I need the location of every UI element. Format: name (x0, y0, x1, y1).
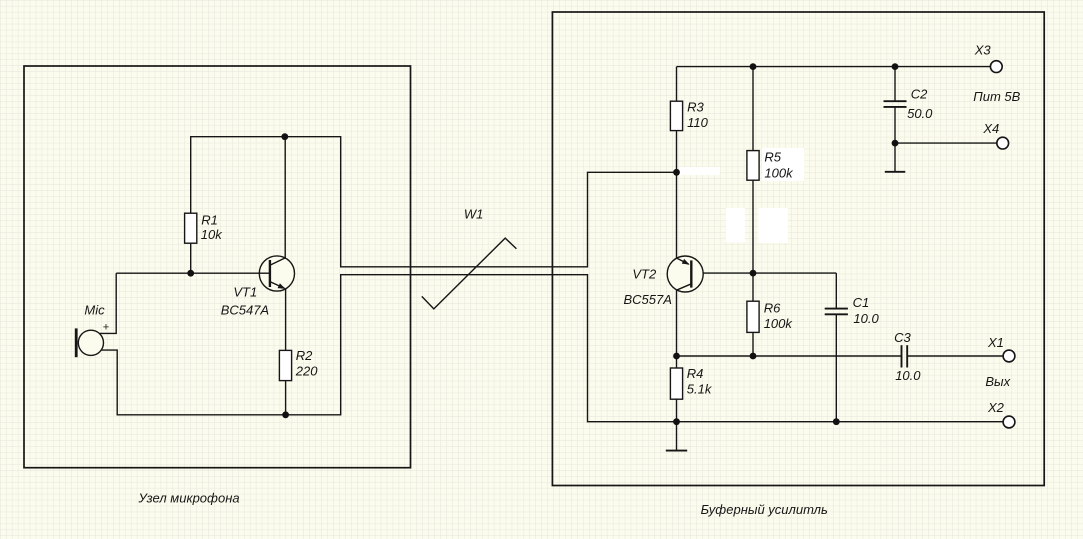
svg-text:50.0: 50.0 (907, 106, 933, 121)
svg-text:100k: 100k (764, 316, 794, 331)
svg-text:10.0: 10.0 (895, 368, 921, 383)
svg-text:BC557A: BC557A (624, 292, 672, 307)
svg-text:X3: X3 (974, 43, 992, 58)
svg-text:10k: 10k (201, 227, 223, 242)
svg-text:220: 220 (295, 364, 318, 379)
svg-text:100k: 100k (764, 166, 794, 181)
svg-text:X2: X2 (987, 400, 1005, 415)
svg-text:R6: R6 (764, 301, 781, 316)
svg-text:Пит 5В: Пит 5В (973, 89, 1020, 104)
svg-text:Вых: Вых (985, 374, 1010, 389)
svg-text:VT2: VT2 (632, 267, 657, 282)
svg-text:C3: C3 (894, 330, 911, 345)
svg-text:110: 110 (687, 115, 708, 130)
svg-text:Mic: Mic (84, 303, 105, 318)
svg-text:C1: C1 (853, 295, 870, 310)
svg-text:Узел микрофона: Узел микрофона (138, 491, 240, 506)
svg-text:5.1k: 5.1k (687, 381, 713, 396)
svg-text:+: + (103, 322, 110, 334)
svg-text:R5: R5 (764, 149, 781, 164)
svg-text:10.0: 10.0 (853, 311, 879, 326)
svg-text:R1: R1 (201, 213, 218, 228)
svg-text:VT1: VT1 (233, 285, 257, 300)
svg-text:X1: X1 (987, 335, 1004, 350)
svg-text:X4: X4 (982, 121, 999, 136)
svg-text:R2: R2 (296, 348, 313, 363)
svg-text:R3: R3 (687, 100, 704, 115)
svg-text:R4: R4 (687, 366, 704, 381)
svg-text:W1: W1 (464, 206, 484, 221)
svg-text:C2: C2 (911, 87, 928, 102)
svg-text:Буферный усилитль: Буферный усилитль (701, 502, 828, 517)
svg-text:BC547A: BC547A (221, 303, 269, 318)
